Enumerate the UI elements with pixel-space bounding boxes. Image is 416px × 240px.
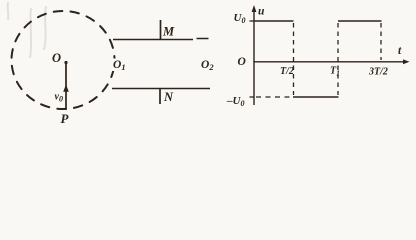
velocity arrowhead v0 (63, 85, 69, 92)
dashed drop line at T/2 (293, 23, 295, 95)
center dot (64, 61, 67, 64)
-U0 tick (250, 96, 255, 98)
svg-text:3T/2: 3T/2 (368, 67, 388, 78)
plate N lead wire (159, 89, 161, 105)
plate N (bottom) (112, 88, 210, 90)
svg-text:M: M (162, 25, 175, 39)
u axis (vertical) (253, 9, 255, 105)
plate M lead wire (160, 20, 162, 40)
faint scan streak artifacts (8, 2, 46, 58)
svg-text:N: N (163, 90, 174, 104)
svg-text:T/2: T/2 (280, 66, 294, 77)
svg-text:O: O (52, 51, 61, 65)
dashed rise line at T1 (337, 23, 339, 95)
waveform -U0 segment (293, 96, 339, 98)
t axis (horizontal) (253, 61, 407, 63)
waveform +U0 segment 1 (254, 20, 294, 22)
dashed circle field region (12, 11, 115, 109)
waveform +U0 segment 2 (338, 20, 382, 22)
svg-text:P: P (61, 111, 70, 126)
gap in circle at O1 (110, 59, 117, 72)
plate M (top) (113, 39, 193, 41)
svg-text:u: u (258, 6, 265, 18)
svg-text:O: O (238, 56, 246, 68)
dashed -U0 level line (256, 96, 291, 98)
dashed drop line at 3T/2 (380, 23, 382, 60)
U0 tick (250, 20, 255, 22)
wire radius OP (65, 63, 67, 111)
